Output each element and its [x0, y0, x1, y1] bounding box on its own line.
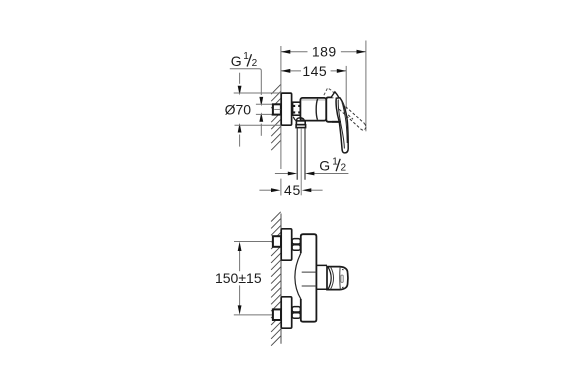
lever beak dashed (raised position tip) — [324, 88, 334, 95]
lever blade solid (down position) — [336, 98, 348, 153]
extension lines G1/2 nipple (top/bottom) — [256, 103, 273, 105]
blade inner line 1 — [338, 100, 344, 149]
knob face seam — [339, 267, 342, 290]
union nipple nut behind wall (top view) — [273, 104, 281, 114]
leader G 1/2 (top): lower segment, up arrow at nipple bottom — [260, 124, 262, 136]
body waist curve — [295, 253, 301, 299]
dashed lever tip hook — [362, 123, 366, 130]
dimension 145 line — [281, 70, 346, 72]
dimension 145 extension line right — [345, 66, 347, 109]
svg-text:189: 189 — [312, 44, 337, 60]
extension line upper connection axis — [234, 241, 273, 243]
svg-text:2: 2 — [252, 58, 258, 69]
dimension 150±15 line upper + up arrow — [239, 251, 241, 272]
knob speck — [342, 268, 343, 271]
escutcheon flange (top view) — [281, 93, 291, 125]
dimension 189 left arrow — [281, 50, 290, 54]
fraction slash (top G 1/2) — [247, 54, 251, 66]
upper union ribs (bottom view) — [292, 239, 300, 251]
dimension 189 line — [281, 51, 366, 53]
svg-text:45: 45 — [284, 182, 301, 198]
body top shading — [302, 99, 326, 101]
label G 1/2 (top) — [231, 51, 258, 69]
knob logo recess — [341, 275, 343, 282]
dimension 189 right arrow — [357, 50, 366, 54]
svg-text:2: 2 — [341, 163, 347, 174]
dome bottom edge over blade — [332, 121, 341, 123]
dimension 145 right arrow — [337, 69, 346, 73]
svg-text:Ø70: Ø70 — [225, 101, 252, 117]
blade inner line 2 — [342, 100, 348, 143]
knob speck lower — [342, 286, 343, 288]
svg-text:G: G — [319, 158, 330, 174]
upper inlet nut behind wall (bottom view) — [273, 236, 281, 247]
lever beak solid — [331, 92, 339, 98]
wire wall surface / extension line (top view) — [280, 46, 282, 169]
cartridge housing step (bottom view) — [316, 265, 327, 289]
cartridge seam arc in body — [316, 99, 318, 120]
dimension 189 extension line right — [365, 41, 367, 132]
lower union ribs (bottom view) — [292, 307, 300, 319]
cartridge dome cap (top view) — [326, 97, 339, 121]
leader G 1/2 outlet: left line + right-pointing arrow — [275, 173, 288, 175]
dimension Ø70: lower line + up arrow — [239, 135, 241, 147]
svg-text:G: G — [231, 53, 242, 69]
outlet elbow cap — [296, 118, 304, 121]
wall hatching (top view) — [271, 85, 280, 151]
outlet pipe walls — [297, 128, 305, 180]
outlet hose nut (two bands) — [296, 121, 305, 125]
body center seams — [302, 272, 317, 286]
mixer body (top view) — [300, 98, 326, 121]
svg-text:150±15: 150±15 — [215, 270, 262, 286]
wall hatching (bottom view) — [271, 212, 281, 346]
lower inlet nut behind wall (bottom view) — [273, 309, 281, 320]
wire wall surface line (bottom view) — [280, 214, 282, 344]
dimension 45 line left + arrow — [259, 189, 271, 191]
handle knob end-on (bottom view) — [327, 267, 348, 290]
upper escutcheon flange (bottom view) — [281, 229, 292, 260]
extension line lower connection axis — [234, 314, 273, 316]
dimension 145 left arrow — [281, 69, 290, 73]
union nut ribs (top view) — [293, 102, 301, 115]
extension lines Ø70 (flange top/bottom) — [234, 92, 281, 94]
dimension 45 line right + arrow — [311, 189, 323, 191]
dimension 150±15 line lower + down arrow — [239, 285, 241, 305]
lower escutcheon flange (bottom view) — [281, 297, 292, 328]
lever blade dashed (raised position) — [339, 103, 364, 129]
outlet neck from body (top view) — [293, 117, 296, 121]
knob dome arcs — [328, 267, 331, 290]
fraction slash (bottom G 1/2) — [336, 159, 340, 171]
mixer body (bottom view) — [301, 234, 317, 322]
leader G 1/2 outlet: right line + left-pointing arrow — [314, 173, 348, 175]
label G 1/2 (bottom, outlet) — [319, 157, 346, 174]
outlet axis / 45 extension line — [300, 129, 302, 196]
dimension Ø70: upper line + down arrow — [239, 73, 241, 84]
svg-text:1: 1 — [243, 51, 249, 62]
svg-text:145: 145 — [302, 63, 327, 79]
leader G 1/2 (top): underline, corner, down arrow at nipple top — [230, 69, 261, 95]
